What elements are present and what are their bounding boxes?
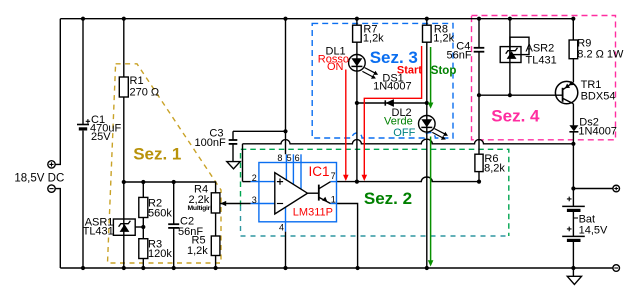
node ground rail dot pin4 xyxy=(283,266,287,270)
svg-text:1,2k: 1,2k xyxy=(363,33,384,45)
node rail dot C4 xyxy=(477,17,481,21)
wire TR1 base link xyxy=(479,94,563,96)
svg-text:1N4007: 1N4007 xyxy=(578,126,617,138)
green arrowhead at ground rail xyxy=(428,260,434,266)
resistor R6 xyxy=(475,154,483,171)
svg-text:1,2k: 1,2k xyxy=(433,33,454,45)
pin 6 line xyxy=(300,154,302,189)
svg-text:100nF: 100nF xyxy=(195,137,226,149)
wire top supply rail xyxy=(60,18,573,20)
wire R6 lower lead xyxy=(478,172,480,182)
shunt regulator ASR2 TL431 xyxy=(500,37,529,62)
battery Bat cell 1 xyxy=(562,197,585,211)
wire left input negative branch xyxy=(55,189,60,268)
svg-text:Sez. 1: Sez. 1 xyxy=(133,144,181,163)
node ground rail dot DL2 xyxy=(425,266,429,270)
svg-text:OFF: OFF xyxy=(393,127,415,139)
svg-text:270 Ω: 270 Ω xyxy=(130,87,160,99)
svg-text:1N4007: 1N4007 xyxy=(373,81,412,93)
wire R8 top lead xyxy=(426,19,428,26)
wire left input positive branch xyxy=(55,19,60,165)
ANNOTATION ARROWS xyxy=(346,46,422,176)
terminal input plus xyxy=(48,161,55,168)
node ground rail dot R5 xyxy=(214,266,218,270)
pin 7 stub xyxy=(331,181,337,183)
capacitor C1 electrolytic xyxy=(77,119,90,129)
svg-text:1,2k: 1,2k xyxy=(187,245,208,257)
wire R7 to DL1 and down to pin 7 xyxy=(356,42,358,181)
svg-text:Sez. 3: Sez. 3 xyxy=(370,48,418,67)
resistor R5 xyxy=(211,236,220,256)
svg-text:7: 7 xyxy=(331,171,336,181)
node rail dot R7 xyxy=(355,17,359,21)
terminal output plus xyxy=(613,185,620,192)
wire C3 lower lead xyxy=(232,144,234,162)
node feedback battery junction xyxy=(571,142,575,146)
wire battery mid link xyxy=(572,212,574,237)
wire C3 upper lead xyxy=(232,131,234,140)
svg-text:3: 3 xyxy=(252,195,257,205)
wire battery bottom lead xyxy=(572,242,574,269)
red current path from R8 Start xyxy=(364,46,421,176)
wire Sez.1 divider top xyxy=(124,182,216,193)
svg-text:TL431: TL431 xyxy=(526,55,557,67)
wire R7 top lead xyxy=(356,19,358,26)
wire Ds2 to battery column xyxy=(572,132,574,206)
svg-text:Sez. 2: Sez. 2 xyxy=(364,189,412,208)
node DL1 pin7 junction xyxy=(355,180,359,184)
node ground rail dot ASR1 xyxy=(122,266,126,270)
wire C2 bottom lead xyxy=(173,228,175,268)
wire pin 7 output with hop xyxy=(337,177,480,182)
resistor R2 xyxy=(139,197,148,217)
node Sez1 top C2 junction xyxy=(172,180,176,184)
LED DL1 xyxy=(349,55,379,79)
capacitor C2 xyxy=(168,224,179,228)
pin 3 stub xyxy=(251,203,275,205)
wire R4 wiper to pin 3 xyxy=(221,203,251,205)
node ground rail dot pin1 xyxy=(356,266,360,270)
wire R9 to TR1 emitter xyxy=(572,59,574,82)
wire TR1 collector to Ds2 xyxy=(572,104,574,126)
pin 5 line xyxy=(292,154,294,184)
svg-text:TL431: TL431 xyxy=(83,226,114,238)
svg-text:56nF: 56nF xyxy=(447,50,472,62)
green current path to DL2 xyxy=(430,47,432,104)
svg-text:2: 2 xyxy=(252,173,257,183)
red current path from DL1 xyxy=(345,70,347,176)
svg-text:IC1: IC1 xyxy=(309,164,330,179)
wire R1 column down through ASR1 xyxy=(123,97,125,268)
wire C1 lower lead xyxy=(82,131,84,268)
transistor TR1 BDX54 xyxy=(555,81,577,104)
svg-text:14,5V: 14,5V xyxy=(579,225,608,237)
op-amp comparator U1 internals xyxy=(251,154,337,231)
plus input mark xyxy=(277,179,283,185)
capacitor C4 xyxy=(474,48,485,52)
Sez. 1 dashed yellow outline xyxy=(108,64,222,263)
shunt regulator ASR1 TL431 xyxy=(113,219,135,235)
node long feedback wire with hops xyxy=(243,139,574,144)
node ground rail dot C2 xyxy=(172,266,176,270)
wire R8 through DL2 to ground rail xyxy=(426,42,428,268)
node ASR2 base junction xyxy=(508,93,512,97)
node Sez1 top R1 junction xyxy=(122,180,126,184)
svg-text:8.2 Ω 1W: 8.2 Ω 1W xyxy=(577,49,624,61)
wire C4 top lead xyxy=(478,19,480,48)
wire R6 upper lead xyxy=(478,95,480,154)
svg-text:1: 1 xyxy=(331,194,336,204)
svg-text:Stop: Stop xyxy=(431,65,457,77)
wire R3 bottom lead xyxy=(142,259,144,269)
svg-text:6: 6 xyxy=(295,153,300,163)
op-amp triangle IC1 xyxy=(275,173,308,214)
svg-text:18,5V DC: 18,5V DC xyxy=(14,173,64,185)
wire Bat label leader xyxy=(573,217,578,219)
resistor R7 xyxy=(353,25,362,42)
svg-text:BDX54: BDX54 xyxy=(581,91,616,103)
svg-text:25V: 25V xyxy=(91,131,111,143)
green current path DL2 to ground xyxy=(430,137,432,261)
pin 2 stub xyxy=(251,181,275,183)
wire output positive branch xyxy=(573,188,613,190)
Sez. 4 dashed pink outline xyxy=(472,16,616,140)
wire R2-R3 middle xyxy=(142,218,144,239)
battery Bat cell 2 xyxy=(562,227,585,241)
wire R5 bottom lead xyxy=(215,256,217,269)
wire bottom ground rail xyxy=(60,267,613,269)
node R6 pin7 junction xyxy=(477,180,481,184)
svg-text:560k: 560k xyxy=(148,208,172,220)
wire C3 top link xyxy=(233,130,286,132)
Sez. 2 dashed green outline xyxy=(241,149,509,236)
trimmer R4 xyxy=(211,193,226,213)
red arrowhead Start path xyxy=(362,175,368,181)
node DL2 DS1 junction xyxy=(425,101,429,105)
svg-text:TR1: TR1 xyxy=(581,79,602,91)
node ASR1 ref junction xyxy=(141,225,145,229)
terminal output minus xyxy=(613,265,620,272)
node battery positive junction xyxy=(571,186,575,190)
LED DL2 xyxy=(419,116,449,140)
wire R2 top lead xyxy=(142,182,144,197)
capacitor C3 xyxy=(229,140,238,144)
node rail dot ASR2 xyxy=(508,17,512,21)
svg-text:R1: R1 xyxy=(130,75,144,87)
wire pin 4 lower lead xyxy=(285,232,287,268)
node rail dot R8 xyxy=(425,17,429,21)
diode DS1 xyxy=(385,99,394,107)
diode Ds2 xyxy=(569,125,578,132)
wire R9 top lead xyxy=(572,19,574,40)
red arrowhead DL1 path xyxy=(343,175,349,181)
terminal input minus xyxy=(48,185,55,192)
wire R1 upper lead xyxy=(123,19,125,77)
green arrowhead above DL2 xyxy=(428,103,434,109)
svg-text:8: 8 xyxy=(277,153,282,163)
resistor R9 xyxy=(569,40,578,59)
svg-text:8,2k: 8,2k xyxy=(484,163,505,175)
Sez. 3 dashed blue outline xyxy=(312,23,453,138)
wire C4 to node lead xyxy=(478,52,480,95)
wire C1 upper lead xyxy=(82,19,84,125)
pin 4 line xyxy=(285,207,287,231)
node rail dot pins riser xyxy=(283,17,287,21)
svg-text:ASR2: ASR2 xyxy=(526,43,555,55)
svg-text:4: 4 xyxy=(279,222,284,232)
resistor R8 xyxy=(423,25,432,42)
node rail dot R9 xyxy=(571,17,575,21)
node rail dot R1 xyxy=(122,17,126,21)
resistor R3 xyxy=(139,239,148,259)
node ground rail dot battery xyxy=(571,266,575,270)
wire pin 1 to ground rail xyxy=(337,204,358,269)
pin 8 line xyxy=(285,154,287,180)
wire C2 top lead xyxy=(173,182,175,224)
node C4 R6 junction xyxy=(477,93,481,97)
wire ASR1 reference xyxy=(135,226,143,228)
wire DS1 link xyxy=(357,102,427,104)
minus input mark xyxy=(277,203,283,205)
wire pin 2 stub xyxy=(243,181,251,183)
wire R4-R5 link xyxy=(215,213,217,236)
node ground rail dot R3 xyxy=(141,266,145,270)
svg-text:120k: 120k xyxy=(148,248,172,260)
svg-text:ON: ON xyxy=(327,61,344,73)
node C3 junction xyxy=(283,129,287,133)
resistor R1 xyxy=(119,77,128,97)
wire pin 2 riser xyxy=(242,144,244,182)
IC1 body box xyxy=(259,163,337,222)
svg-text:5: 5 xyxy=(287,153,292,163)
node Sez1 top R2 junction xyxy=(141,180,145,184)
node ground rail dot C1 xyxy=(81,266,85,270)
svg-text:Multigiri: Multigiri xyxy=(188,205,213,212)
node rail dot C1 xyxy=(81,17,85,21)
pin 1 stub xyxy=(331,203,337,205)
transistor Q inside IC1 xyxy=(308,182,331,204)
Sez. 2 dashed teal bottom edge xyxy=(241,206,509,236)
ground under battery xyxy=(567,268,581,284)
wire balance pins riser xyxy=(285,19,287,155)
node DL1 DS1 junction xyxy=(355,101,359,105)
svg-text:Verde: Verde xyxy=(384,115,413,127)
svg-text:Sez. 4: Sez. 4 xyxy=(491,107,540,126)
ground under C3 xyxy=(227,162,240,169)
svg-text:LM311P: LM311P xyxy=(293,207,333,219)
wire ASR2 column xyxy=(509,19,511,96)
